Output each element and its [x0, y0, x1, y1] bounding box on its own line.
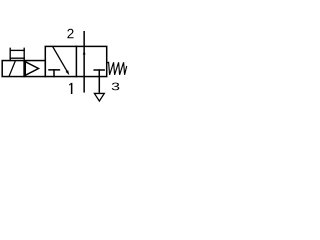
- right box blocked port T crossbar: [94, 69, 104, 71]
- return spring: [107, 62, 127, 75]
- left box blocked port T crossbar: [49, 69, 59, 71]
- pilot triangle: [25, 62, 38, 76]
- port 2 line and right box flow path: [83, 31, 85, 93]
- right box arrowhead: [83, 51, 86, 55]
- label port 2: [67, 29, 73, 39]
- solenoid coil diagonal: [9, 61, 15, 76]
- left box blocked port T stem: [53, 70, 55, 77]
- solenoid box divider: [23, 61, 25, 77]
- port 3 stub: [98, 77, 100, 93]
- valve body: [45, 46, 106, 76]
- valve position divider: [75, 46, 77, 76]
- label port 1: [69, 83, 72, 94]
- electrical connector ladder: [10, 48, 24, 60]
- label port 3: [112, 83, 120, 91]
- solenoid box Y1: [2, 61, 45, 77]
- left box flow diagonal: [53, 47, 67, 71]
- left box arrowhead: [66, 70, 70, 75]
- exhaust triangle: [94, 93, 104, 101]
- right box blocked port T stem: [98, 70, 100, 77]
